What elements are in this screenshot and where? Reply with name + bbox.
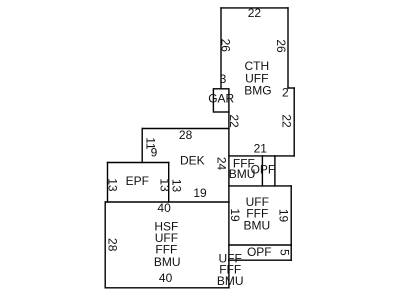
svg-text:13: 13 bbox=[169, 179, 183, 193]
svg-text:13: 13 bbox=[106, 178, 120, 192]
svg-text:26: 26 bbox=[219, 39, 233, 53]
wire: top room top edge bbox=[221, 7, 288, 9]
svg-text:DEK: DEK bbox=[180, 153, 205, 167]
svg-text:GAR: GAR bbox=[208, 91, 234, 105]
svg-text:BMG: BMG bbox=[244, 83, 271, 97]
wire: EPF right edge bbox=[168, 163, 170, 203]
svg-text:BMU: BMU bbox=[217, 274, 244, 288]
svg-text:21: 21 bbox=[254, 141, 268, 155]
wire: 21 line bbox=[229, 155, 294, 157]
svg-text:5: 5 bbox=[278, 249, 292, 256]
svg-text:22: 22 bbox=[248, 6, 262, 20]
wire: top room left edge bbox=[220, 8, 222, 89]
svg-text:24: 24 bbox=[215, 157, 229, 171]
wire: OPF strip bottom bbox=[229, 259, 291, 261]
wire: OPF strip top bbox=[229, 244, 291, 246]
svg-text:13: 13 bbox=[157, 178, 171, 192]
wire: EPF left edge bbox=[107, 163, 109, 203]
wire: EPF top edge bbox=[108, 162, 169, 164]
svg-text:19: 19 bbox=[228, 208, 242, 222]
svg-text:22: 22 bbox=[227, 114, 241, 128]
wire: HSF bottom edge bbox=[105, 287, 229, 289]
wire: room top line bbox=[229, 185, 291, 187]
svg-text:19: 19 bbox=[193, 186, 207, 200]
wire: DEK top edge bbox=[142, 128, 229, 130]
svg-text:OPF: OPF bbox=[251, 163, 276, 177]
wire: DEK left wall bbox=[141, 129, 143, 163]
svg-text:9: 9 bbox=[151, 145, 158, 159]
node GAR box bbox=[213, 89, 229, 112]
svg-text:28: 28 bbox=[105, 238, 119, 252]
svg-text:EPF: EPF bbox=[126, 174, 149, 188]
svg-text:28: 28 bbox=[179, 128, 193, 142]
wire: HSF top edge bbox=[105, 201, 229, 203]
svg-text:BMU: BMU bbox=[243, 219, 270, 233]
svg-text:2: 2 bbox=[282, 85, 289, 99]
wire: top room right edge upper bbox=[287, 8, 289, 88]
wire: long shared wall bbox=[228, 112, 230, 288]
wire: room right edge bbox=[290, 186, 292, 260]
svg-text:40: 40 bbox=[159, 271, 173, 285]
svg-text:BMU: BMU bbox=[154, 255, 181, 269]
svg-text:40: 40 bbox=[157, 201, 171, 215]
svg-text:OPF: OPF bbox=[247, 245, 272, 259]
svg-text:19: 19 bbox=[276, 209, 290, 223]
svg-text:3: 3 bbox=[220, 72, 227, 86]
svg-text:22: 22 bbox=[279, 114, 293, 128]
wire: row divider b bbox=[274, 156, 276, 186]
svg-text:26: 26 bbox=[274, 39, 288, 53]
wire: step at right bbox=[288, 87, 294, 89]
wire: HSF left edge bbox=[104, 202, 106, 288]
wire: top room right edge lower bbox=[293, 88, 295, 156]
wire: row divider a bbox=[261, 156, 263, 186]
